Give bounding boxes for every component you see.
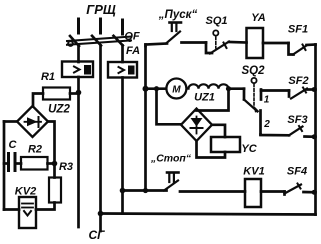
coil YC [211,137,240,152]
resistor R1 [43,88,70,100]
svg-text:C: C [9,139,18,151]
wire R2 right lead [48,162,55,165]
wire bottom bus [101,214,316,215]
svg-text:UZ2: UZ2 [48,104,70,116]
wire inductor to SQ2 [229,87,245,90]
wire left rail to KV2 [4,208,19,211]
contact SF4 [285,184,317,195]
node UZ1 top branch junction [226,86,231,91]
wire control rail [144,45,147,191]
node control rail / motor branch [143,86,149,92]
wire YA to SF1 [263,42,289,45]
contact SF2 [289,87,316,98]
wire UZ1 bottom vertex to YC bottom [197,141,226,158]
pushbutton Стоп [164,173,179,191]
QF pole 1 contact arm [70,36,79,46]
wire R1 to phase1 [70,92,79,95]
resistor R3 [49,178,61,203]
wire position1 to SF2 [261,89,289,92]
wire position2 to SF3 [261,133,290,137]
svg-text:SF2: SF2 [288,75,308,87]
fuse-breaker box FA phase 1 [62,62,93,78]
svg-text:YC: YC [241,143,257,155]
rectifier bridge UZ2 [17,106,48,137]
svg-text:ГРЩ: ГРЩ [86,2,116,17]
svg-text:UZ1: UZ1 [194,92,215,104]
wire control rail top corner [146,44,168,47]
circuit breaker QF ganged linkage bar [67,37,131,46]
QF pole 2 contact arm [92,36,101,46]
wire phase 2 [99,46,102,232]
wire right rail [314,45,317,215]
node SQ2 position 1 terminal [260,90,263,100]
node UZ1 branch junction [154,86,159,91]
svg-text:KV2: KV2 [15,186,36,198]
svg-text:SQ1: SQ1 [205,15,227,27]
node rail bottom T junction [143,188,148,193]
svg-text:R3: R3 [59,161,73,173]
relay KV2 [19,197,36,228]
svg-text:R1: R1 [41,71,55,83]
bus stub phase 3 [121,20,124,34]
contact SF1 [289,43,316,55]
svg-text:QF: QF [124,31,140,43]
wire phase3 to stop branch [123,189,167,192]
node phase1-R1 junction [76,90,82,96]
wire UZ1 top vertex to main line [197,89,229,111]
svg-text:СГ: СГ [88,228,105,242]
wire left rail down [3,122,6,210]
svg-text:2: 2 [263,119,270,130]
svg-text:YA: YA [251,12,266,24]
svg-text:KV1: KV1 [243,166,264,178]
node phase2-bottom bus junction [98,211,104,217]
node R2-R3 junction [52,161,58,167]
wire rail to motor [146,87,167,90]
node phase3-control junction [120,188,126,194]
rectifier bridge UZ1 [181,109,212,142]
fuse-breaker box FA phase 3 [108,62,137,78]
svg-text:1: 1 [264,95,270,106]
wire KV1 to SF4 [261,190,285,193]
wire UZ2 right vertex down [48,122,55,178]
limit switch SQ1 [206,30,229,53]
bus stub phase 2 [99,19,102,33]
node SQ2 position 2 terminal [259,111,262,135]
svg-text:М: М [172,85,181,96]
wire phase 1 lower [77,77,80,227]
svg-text:„Стоп“: „Стоп“ [150,153,192,165]
wire branch down to UZ1 left vertex [157,89,182,125]
bus stub phase 1 [77,19,80,33]
svg-text:SF3: SF3 [287,114,307,126]
capacitor C [4,154,21,171]
svg-text:„Пуск“: „Пуск“ [158,9,198,21]
svg-text:FA: FA [126,45,140,57]
resistor R2 [21,157,48,170]
wire phase 3 lower [121,78,124,214]
wire R3 bottom to KV2 [36,203,55,210]
coil YA [247,28,264,58]
wire UZ2 left vertex to left rail [4,120,17,123]
svg-text:SF4: SF4 [287,166,307,178]
svg-text:SQ2: SQ2 [241,65,265,77]
wire R1 left lead [33,94,43,107]
motor M [166,79,186,99]
svg-text:SF1: SF1 [288,24,308,36]
contact SF3 [289,126,316,139]
wire phase 3 upper [121,46,124,63]
wire SQ1 to YA [229,41,247,44]
wire Пуск to SQ1 [182,41,207,44]
QF pole 3 contact arm [114,36,123,46]
limit switch SQ2 [244,78,260,113]
coil KV1 [245,179,261,207]
svg-text:R2: R2 [28,144,42,156]
wire phase 1 upper [77,46,80,63]
pushbutton Пуск [166,23,181,44]
wire Стоп to KV1 [180,190,245,193]
wire UZ1 right vertex to YC top [212,125,225,137]
inductor choke [189,84,229,88]
